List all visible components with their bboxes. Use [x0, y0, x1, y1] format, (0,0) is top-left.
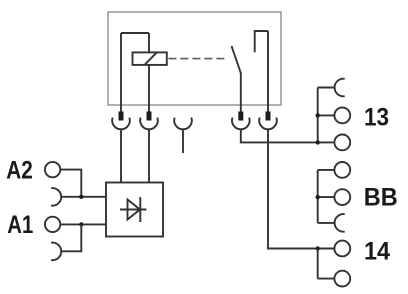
wire A2 socket to junction: [61, 196, 106, 198]
terminal circle group 13 lower: [334, 135, 350, 151]
bus group 13: [317, 88, 319, 143]
pin terminal contact NO: [266, 112, 271, 121]
terminal circle group 14 lower: [334, 271, 350, 287]
terminal circle 14: [334, 241, 350, 257]
relay enclosure outline: [108, 12, 281, 105]
wire contact NO to 14 bus: [268, 129, 318, 248]
terminal circle 13: [334, 108, 350, 124]
NO contact moving lever: [232, 46, 241, 73]
bridge socket 13: [335, 79, 345, 97]
wire A1 to rectifier: [60, 223, 106, 225]
stub terminal 13: [318, 114, 335, 116]
pin terminal contact common: [238, 112, 243, 121]
mechanical link (dashed): [168, 58, 226, 60]
stub lower terminal group 14: [318, 278, 335, 280]
wire coil right branch upper: [148, 33, 150, 52]
bridge socket A1: [51, 243, 61, 261]
wire cup A1 side to rectifier: [148, 129, 150, 182]
socket cup coil A1 side: [140, 118, 158, 130]
wire unused socket tail: [182, 129, 184, 153]
svg-text:A2: A2: [6, 157, 33, 185]
rectifier module box: [106, 183, 163, 237]
bus group BB: [317, 170, 319, 223]
stub upper terminal BB: [318, 169, 335, 171]
bus group 14: [317, 249, 319, 279]
wire A1 junction down to socket: [61, 224, 81, 251]
pin terminal coil A2 side: [119, 112, 124, 121]
coil diagonal slash: [145, 52, 157, 65]
socket cup contact NO: [259, 118, 277, 130]
bridge socket A2: [51, 188, 61, 206]
junction dot BB: [316, 195, 320, 199]
bridge socket BB: [335, 214, 345, 232]
stub bridge socket BB: [318, 222, 335, 224]
wire coil left branch (vertical into pin): [120, 33, 122, 112]
unused socket cup (center): [174, 118, 192, 130]
pin terminal coil A1 side: [147, 112, 152, 121]
terminal circle A1: [45, 217, 60, 232]
terminal circle A2: [45, 162, 60, 177]
wire cup A2 side to rectifier: [120, 129, 122, 182]
junction dot group 13 lower: [316, 140, 320, 144]
socket cup contact common: [232, 118, 250, 130]
relay coil K1: [133, 52, 167, 65]
stub terminal 14: [318, 248, 335, 250]
wire contact common to 13 bus: [241, 129, 318, 142]
svg-text:A1: A1: [7, 211, 33, 239]
svg-text:13: 13: [364, 104, 389, 132]
wire moving contact vertical: [240, 72, 242, 112]
junction dot 13: [316, 113, 320, 117]
stub bridge socket 13: [318, 87, 335, 89]
diode D1: [120, 197, 147, 222]
junction dot A1: [79, 222, 83, 226]
svg-text:BB: BB: [364, 184, 398, 212]
junction dot A2: [79, 195, 83, 199]
stub lower terminal group 13: [318, 141, 335, 143]
NO contact fixed hook: [255, 31, 268, 52]
terminal circle BB upper: [334, 162, 350, 178]
wire coil top bar: [121, 32, 149, 34]
stub terminal BB: [318, 196, 335, 198]
svg-text:14: 14: [364, 237, 390, 265]
socket cup coil A2 side: [112, 118, 130, 130]
junction dot 14: [316, 246, 320, 250]
wire coil right branch lower: [148, 65, 150, 112]
wire A2 to junction: [60, 170, 81, 197]
terminal circle BB: [334, 189, 350, 205]
wire fixed contact vertical: [267, 31, 269, 112]
